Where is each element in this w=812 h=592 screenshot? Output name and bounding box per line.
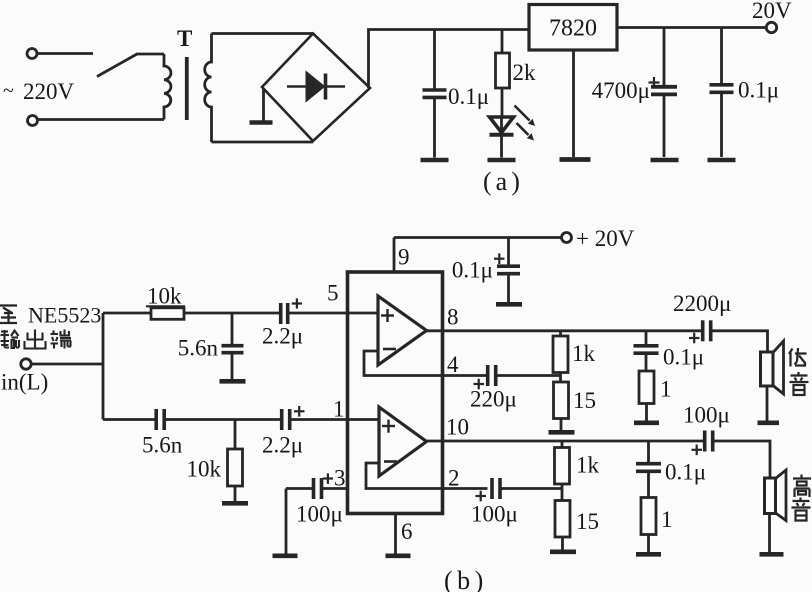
wire bridge output up to rail (369, 30, 530, 89)
resistor 1k (bottom channel) (561, 441, 564, 448)
pin 10 output wire (427, 440, 705, 443)
label to-NE5523 Chinese glyph ZHI (0, 306, 17, 324)
svg-text:0.1μ: 0.1μ (665, 460, 706, 485)
svg-text:15: 15 (573, 388, 596, 413)
capacitor 220u (486, 365, 490, 386)
wire pin2 cap to 1k/15 junction (501, 487, 562, 490)
svg-text:+ 20V: + 20V (576, 226, 635, 251)
bridge diode symbol (287, 74, 345, 100)
svg-text:T: T (177, 26, 192, 51)
svg-text:~: ~ (3, 80, 14, 102)
ground (560, 157, 591, 162)
resistor 15 (bottom channel) (555, 501, 570, 538)
svg-text:9: 9 (398, 245, 410, 270)
IC box (348, 272, 443, 514)
svg-text:2200μ: 2200μ (673, 291, 731, 316)
svg-text:in(L): in(L) (1, 370, 48, 395)
svg-text:1: 1 (333, 397, 345, 422)
ground (708, 158, 736, 163)
pin 9 stub (393, 238, 396, 273)
svg-text:100μ: 100μ (296, 502, 343, 527)
svg-text:100μ: 100μ (471, 502, 518, 527)
ground (760, 552, 784, 557)
svg-text:8: 8 (447, 305, 459, 330)
terminal AC input bottom (28, 116, 38, 126)
capacitor 5.6n (bottom, series) (154, 409, 158, 430)
label Chinese CHU (25, 330, 46, 349)
svg-text:0.1μ: 0.1μ (452, 258, 493, 283)
ground (758, 420, 780, 425)
ground (636, 552, 661, 557)
wire to pin 5 (289, 312, 378, 315)
wire +20V rail (394, 236, 561, 239)
svg-text:20V: 20V (752, 0, 792, 23)
capacitor 100u (pin 2) (490, 478, 494, 499)
wire (136, 53, 164, 56)
wire (38, 52, 94, 55)
label Chinese DI (woofer low) (789, 348, 807, 367)
svg-text:7820: 7820 (549, 16, 597, 42)
wire output rail (617, 26, 767, 29)
op-amp B (bottom) (379, 407, 427, 476)
wire to pin 1 (291, 418, 379, 421)
svg-text:0.1μ: 0.1μ (448, 84, 489, 109)
terminal 20V output (766, 22, 776, 32)
resistor 15 (top channel) (554, 382, 569, 419)
terminal input in(L) (21, 359, 31, 369)
feedback wire op-amp B to pin 2 (366, 463, 488, 489)
capacitor 0.1u (input filter) (433, 30, 436, 89)
resistor 1k (top channel) (559, 331, 562, 336)
capacitor 0.1u (top channel zobel) (645, 331, 648, 344)
resistor 2k (501, 30, 504, 54)
wire pin3 cap to ground (285, 489, 288, 554)
capacitor 5.6n (top, shunt) (231, 313, 234, 344)
ground (496, 302, 522, 307)
wire secondary top to bridge (212, 32, 314, 35)
ground (222, 501, 248, 506)
svg-text:2.2μ: 2.2μ (262, 433, 303, 458)
label Chinese DUAN (51, 330, 72, 349)
op-amp A (top) (378, 296, 427, 365)
ground (421, 158, 449, 163)
svg-text:3: 3 (334, 466, 346, 491)
capacitor 0.1u (bottom channel zobel) (647, 441, 650, 462)
label Chinese SHU (output) (1, 330, 20, 348)
label Chinese GAO (tweeter high) (793, 475, 811, 498)
svg-text:2k: 2k (513, 60, 537, 85)
svg-text:2: 2 (448, 466, 460, 491)
transformer T secondary winding (205, 34, 212, 143)
ground (386, 553, 411, 558)
svg-text:1: 1 (661, 507, 673, 532)
ground (634, 420, 659, 425)
wire lower branch (103, 418, 156, 421)
capacitor 2.2u (top, series) (279, 303, 283, 324)
svg-text:5.6n: 5.6n (142, 433, 183, 458)
wire junction vertical (102, 313, 105, 420)
svg-text:10k: 10k (147, 284, 182, 309)
wire input to junction (32, 363, 104, 366)
svg-text:NE5523: NE5523 (28, 303, 101, 328)
wire regulator ground pin (572, 50, 575, 157)
capacitor 0.1u decoupling (507, 238, 510, 265)
svg-text:4700μ: 4700μ (592, 78, 650, 103)
ground (488, 158, 516, 163)
terminal +20V (562, 233, 572, 243)
LED indicator (490, 117, 514, 133)
svg-text:5.6n: 5.6n (178, 336, 219, 361)
svg-text:0.1μ: 0.1μ (738, 78, 779, 103)
wire secondary bottom to bridge (212, 141, 314, 144)
svg-text:(b): (b) (444, 566, 488, 592)
transformer core bar (185, 57, 189, 120)
wire 220u to 1k/15 junction (497, 374, 561, 377)
svg-text:220V: 220V (23, 79, 75, 104)
capacitor 2.2u (bottom, series) (280, 409, 284, 430)
resistor 1 (top channel zobel) (639, 371, 654, 404)
svg-text:1k: 1k (576, 453, 600, 478)
wire (38, 118, 164, 121)
wire (184, 312, 280, 315)
svg-text:5: 5 (327, 281, 339, 306)
resistor 1 (bottom channel zobel) (641, 498, 656, 535)
regulator 7820 (529, 5, 617, 51)
svg-text:220μ: 220μ (470, 387, 517, 412)
feedback wire op-amp A to pin 4 (364, 351, 487, 376)
wire to tweeter (714, 441, 770, 478)
svg-text:0.1μ: 0.1μ (663, 345, 704, 370)
svg-text:15: 15 (576, 509, 599, 534)
svg-text:100μ: 100μ (683, 403, 730, 428)
transformer T primary winding (164, 54, 171, 120)
ground (651, 158, 679, 163)
svg-text:6: 6 (401, 519, 413, 544)
svg-text:2.2μ: 2.2μ (262, 324, 303, 349)
ground at bridge left corner (262, 88, 265, 122)
svg-text:1k: 1k (572, 341, 596, 366)
svg-text:10: 10 (446, 415, 469, 440)
svg-text:(a): (a) (483, 167, 524, 196)
ground (550, 549, 576, 554)
wire top branch (103, 312, 151, 315)
wire to woofer (712, 331, 768, 352)
ground (220, 379, 246, 384)
svg-text:1: 1 (660, 377, 672, 402)
svg-text:10k: 10k (187, 457, 222, 482)
bridge rectifier diamond (262, 34, 370, 142)
capacitor 0.1u (output) (720, 28, 723, 84)
label Chinese YIN (tweeter) (792, 498, 811, 521)
speaker tweeter (765, 478, 776, 514)
wire (165, 418, 281, 421)
capacitor 4700u electrolytic (663, 28, 666, 86)
pin 6 stub (394, 514, 397, 554)
svg-text:4: 4 (447, 352, 459, 377)
pin 8 output wire (427, 329, 703, 332)
ground (549, 430, 575, 435)
ground (273, 553, 298, 558)
resistor 10k (bottom, shunt) (234, 420, 237, 450)
speaker woofer (761, 352, 774, 386)
terminal AC input top (27, 49, 37, 59)
switch S (97, 54, 137, 77)
label Chinese YIN (woofer) (790, 372, 809, 395)
